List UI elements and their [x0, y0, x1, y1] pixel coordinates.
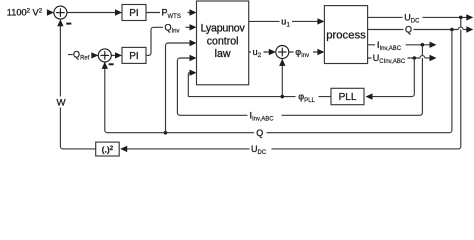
label: u2: [251, 46, 264, 59]
summing junction S1: [54, 6, 67, 19]
node: phi_PLL junction: [281, 95, 285, 99]
svg-text:Q: Q: [256, 128, 263, 138]
block: process: [324, 6, 367, 64]
wire: W feedback vertical into sum S1: [60, 25, 95, 149]
wire: phi_inv from sum S3 to process: [289, 51, 318, 53]
block: PLL: [331, 88, 364, 104]
block: Lyapunov control law: [197, 1, 249, 85]
wire: U_CInv,ABC output line with hop over I_Inv drop: [368, 57, 420, 59]
summing junction S3: [276, 46, 289, 59]
svg-text:PI: PI: [129, 51, 138, 62]
wire: I_Inv,ABC feedback drop, bottom run and riser 2 to Lyapunov input 4: [177, 45, 422, 116]
block: squarer (.)^2: [96, 142, 120, 156]
label: phi_inv: [294, 46, 314, 59]
svg-text:law: law: [215, 48, 231, 60]
label: I_Inv,ABC top: [375, 39, 406, 52]
wire: Q feedback drop and bottom run to sum S2: [105, 30, 452, 133]
svg-text:PI: PI: [129, 8, 138, 19]
node: U_CInv,ABC junction: [413, 56, 417, 60]
wire: PI1 output P_WTS to Lyapunov input 1: [146, 12, 191, 14]
wire: u2 from Lyapunov to sum S3: [249, 51, 270, 53]
wire: u1 from Lyapunov to process: [249, 20, 318, 22]
label: U_DC bottom: [250, 143, 272, 156]
minus sign at S1: [66, 23, 71, 25]
label: Q bottom: [254, 127, 267, 140]
svg-text:Q: Q: [405, 25, 412, 35]
label: U_DC top: [403, 11, 423, 24]
wire: U_DC feedback drop and bottom run to squarer: [127, 17, 461, 149]
node: Q junction: [450, 28, 454, 32]
wire: I_Inv,ABC output line: [368, 44, 430, 46]
summing junction S2: [98, 49, 111, 62]
label: phi_PLL: [296, 91, 319, 104]
label: u1: [280, 15, 293, 28]
wire: PI2 output riser Q_Inv to Lyapunov input 2: [146, 27, 191, 55]
label: U_CInv,ABC: [372, 52, 408, 65]
block: PI controller 1: [122, 5, 146, 21]
svg-text:process: process: [326, 30, 366, 42]
node: U_DC junction: [459, 16, 463, 20]
wire: -Q_Ref arrow into sum S2: [92, 54, 99, 56]
wire: U_CInv,ABC drop to PLL input: [372, 58, 414, 97]
svg-text:PLL: PLL: [339, 92, 357, 103]
svg-text:11002 V2: 11002 V2: [7, 8, 43, 18]
wire: setpoint arrow into sum S1: [47, 9, 54, 15]
svg-text:Lyapunov: Lyapunov: [201, 23, 246, 35]
wire: Q output line with hop over U_DC drop: [368, 29, 459, 31]
label: Q top: [404, 24, 414, 36]
svg-text:W: W: [57, 98, 67, 109]
wire: U_DC output line: [368, 16, 467, 18]
label: 1100^2 V^2 setpoint: [4, 5, 47, 20]
label: P_WTS: [160, 7, 188, 20]
minus sign at S2: [109, 63, 114, 65]
wire: S2 output to PI2: [111, 54, 116, 56]
node: I_Inv,ABC junction: [421, 43, 425, 47]
node: Q feedback to riser 1 junction: [164, 131, 168, 135]
wire: S1 output to PI1: [67, 12, 117, 14]
label: W: [55, 97, 68, 108]
wire: phi_PLL from PLL to sum S3 and riser 3: [188, 96, 331, 98]
wire: riser 1 Q to Lyapunov input 3: [166, 43, 191, 133]
block: PI controller 2: [122, 47, 146, 63]
label: I_Inv,ABC bottom: [248, 109, 282, 122]
wire: riser 3 phi_PLL to Lyapunov input 5: [188, 73, 190, 97]
label: Q_Inv: [163, 22, 186, 35]
svg-text:control: control: [207, 35, 239, 47]
